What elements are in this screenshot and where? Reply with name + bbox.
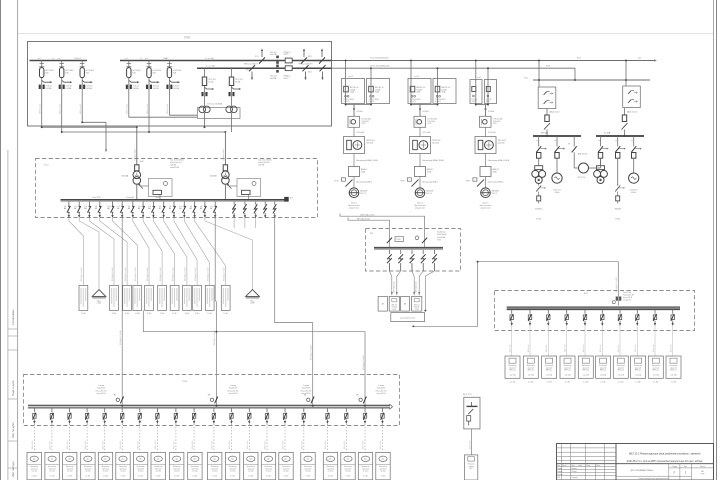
spare feeder stub [233,218,235,228]
load box B3 [542,356,557,384]
svg-text:Uк=6% Дн/Ун-11: Uк=6% Дн/Ун-11 [170,162,182,164]
bottom feeder [302,408,305,452]
TP incomer wire 1 [136,127,138,165]
svg-text:КВВГнг 4х2,5: КВВГнг 4х2,5 [167,104,169,114]
wire through cell L [410,79,412,105]
disconnector bus1 [259,48,265,63]
svg-text:Лист: Лист [684,466,688,468]
node junction [61,131,63,133]
incomer breaker [208,394,218,404]
load box B6 [596,356,611,384]
breaker cell narrow [470,80,482,104]
svg-text:ВВГнг(А)-LS 4х35: ВВГнг(А)-LS 4х35 [80,267,83,281]
load cabinet N15 [279,452,293,479]
wire through cell L [475,79,477,105]
cable to BSK wire B [348,218,389,248]
voltage transformer feeder TV3 [78,58,94,90]
node junction [136,126,138,128]
chain drop [353,105,355,117]
control link wire [414,262,478,327]
motor feeder [631,136,642,158]
svg-text:2 с.ш. 6кВ: 2 с.ш. 6кВ [206,66,215,68]
BSK incomer 2 [422,238,427,244]
svg-text:ЩСУ ТП-3: ЩСУ ТП-3 [463,394,472,396]
node feed B [624,135,626,137]
svg-text:ЛР: ЛР [568,144,570,146]
TP feeder drawout [254,202,257,219]
svg-text:1 с.: 1 с. [52,58,56,60]
svg-text:Н.контр.: Н.контр. [557,474,563,476]
collector to section 4 [143,310,365,405]
disconnector bus1 [319,48,325,63]
svg-text:ВВГнг 4х16: ВВГнг 4х16 [174,441,176,449]
spare feeder stub [244,218,246,228]
TP feeder QF [128,202,135,218]
wire through cell R [370,79,372,105]
wire TSN-1 tail [204,113,206,128]
bus end cap [284,197,289,202]
svg-text:ВВГнг(А)-LS 4х35: ВВГнг(А)-LS 4х35 [223,267,226,281]
svg-text:ВВГнг 4х6: ВВГнг 4х6 [671,345,673,352]
wire drop from KL-1 [475,61,477,79]
svg-text:Листов: Листов [700,466,705,468]
svg-text:яч.8,9: яч.8,9 [414,76,419,78]
svg-text:М2-2: М2-2 [308,72,312,74]
spare feeder stub [255,218,257,228]
TP transformer T2 [222,165,232,200]
svg-text:КВВГнг 4х2,5: КВВГнг 4х2,5 [127,104,129,114]
load cabinet N4 [81,452,95,479]
cable to panel [174,218,197,285]
cable to panel [184,218,209,285]
svg-text:Своб.4ГПП: Своб.4ГПП [92,197,102,199]
section caption [376,385,387,395]
svg-text:ВВГнг 4х16: ВВГнг 4х16 [102,441,104,449]
svg-text:ВВГнг 4х6: ВВГнг 4х6 [510,345,512,352]
load cabinet N3 [62,452,76,479]
svg-text:Ррасч=352 кВт: Ррасч=352 кВт [228,390,239,392]
svg-text:6кВ 80А: 6кВ 80А [270,77,277,80]
svg-text:ВВГнг(А)-LS 4х240: ВВГнг(А)-LS 4х240 [119,330,122,345]
disconnector bus2 [303,65,309,80]
SCHST feeder [528,310,532,356]
svg-text:ВВГнг(А)-LS 4х35: ВВГнг(А)-LS 4х35 [207,267,210,281]
motor captions [553,190,638,194]
bus 1 section I [30,60,88,62]
breaker cell narrow [485,80,497,104]
svg-text:питание: питание [468,466,473,468]
switch box cell A [538,87,556,109]
transformer TSN-1 [199,68,216,113]
svg-text:П: П [673,471,675,474]
svg-text:ЩСТ: ЩСТ [584,293,589,295]
panel cabinet P8 [183,285,192,315]
SCHST feeder [583,310,587,356]
load box B1 [505,356,520,384]
node junction [148,131,150,133]
svg-text:К-250-61-5: К-250-61-5 [630,190,638,192]
SCHST feeder [565,310,569,356]
load cabinet N6 [116,452,130,479]
collector wire y115 [169,114,197,116]
svg-text:КЛ-3: КЛ-3 [546,65,550,67]
svg-text:400УЗ: 400УЗ [284,78,289,80]
cable to panel [89,218,114,285]
TP feeder drawout [243,202,246,219]
svg-text:2с 6кВ: 2с 6кВ [604,133,611,135]
load box B8 [631,356,646,384]
cable to BSK wire A [340,214,425,248]
load box B9 [648,356,663,384]
load box B7 [613,356,628,384]
svg-text:ВВГнг 4х6: ВВГнг 4х6 [583,345,585,352]
pair connector [411,104,438,106]
bus 1 section II [120,60,332,62]
caption SCHU-3 [480,202,492,209]
panel cabinet P1 [79,285,88,315]
svg-text:Петров: Петров [572,471,577,473]
bottom feeder [381,408,384,452]
svg-text:4 секция: 4 секция [378,385,385,387]
svg-text:«УКР»: «УКР» [700,474,705,476]
svg-text:ВВГнг(А) 4х35: ВВГнг(А) 4х35 [415,281,418,292]
bottom feeder [33,408,36,452]
node KL3 [574,79,576,81]
svg-text:ВВГнг 4х16: ВВГнг 4х16 [344,441,346,449]
svg-text:Разраб.: Разраб. [557,468,563,470]
svg-text:1 секция: 1 секция [98,385,105,387]
caption SCHU-2 [414,202,426,209]
chain drop [485,105,487,117]
incomer cable section 2 [215,218,216,405]
load cabinet N16 [301,452,315,479]
svg-text:РВФЗ-2-10/630УЗ: РВФЗ-2-10/630УЗ [299,63,313,66]
capacitor unit FKU2 [412,296,422,311]
svg-text:КВВГнг 4х2,5: КВВГнг 4х2,5 [60,104,62,114]
svg-text:ВВГнг(А)-LS 4х240: ВВГнг(А)-LS 4х240 [213,330,216,345]
distribution line 6kV right [533,79,650,81]
svg-text:ВВГнг 4х16: ВВГнг 4х16 [155,441,157,449]
fuse below box A [546,109,548,116]
svg-text:ВВГнг 4х6: ВВГнг 4х6 [635,345,637,352]
transformer labels [121,161,217,177]
bottom feeder [192,408,195,452]
load cabinet N5 [98,452,112,479]
load box B4 [560,356,575,384]
svg-text:Тр-р ТСЗх-1600/10: Тр-р ТСЗх-1600/10 [258,159,272,161]
svg-text:Дата: Дата [597,465,600,467]
distribution chain SCHU-3 [466,104,510,198]
TP dashed enclosure [36,159,318,218]
motor feeder [554,136,565,158]
lighting board triangle 1 [92,290,106,305]
bottom dashed enclosure TP-3 [24,375,400,426]
svg-text:ВВГнг(А)-LS 4х35: ВВГнг(А)-LS 4х35 [146,267,149,281]
CT stack bus1 [276,56,279,64]
cell group labels [348,76,481,79]
svg-text:Подп. и дата: Подп. и дата [11,380,15,396]
collector wire y132 [62,131,226,133]
breaker cell [408,79,431,104]
SCHU load box [464,455,477,480]
cable to panel [143,218,162,285]
SCHST feeder [510,310,514,356]
wire TV3 tail [81,89,83,122]
wire TV2 tail [61,89,63,132]
svg-text:2хСИП-4: 2хСИП-4 [535,209,542,211]
TP incomer wire 2 [224,132,226,165]
section caption [301,385,312,395]
cable to panel [195,218,226,285]
svg-text:Ру=443 кВт: Ру=443 кВт [229,388,238,390]
svg-text:ТП-3К: ТП-3К [182,381,188,383]
transformer TSN-2 [226,68,243,113]
svg-text:ААШв 3х120: ААШв 3х120 [550,111,560,114]
svg-text:М1-2: М1-2 [308,56,312,58]
svg-text:ВВГнг 4х16: ВВГнг 4х16 [192,441,194,449]
cable to panel [133,218,149,285]
load cabinet N17 [323,452,337,479]
svg-text:ВВГнг 4х6: ВВГнг 4х6 [546,345,548,352]
bottom feeder [68,408,71,452]
cluster labels [244,52,312,80]
motor M4 [629,158,639,183]
bus 2 [197,67,332,69]
svg-text:10/0,4кВ: 10/0,4кВ [170,164,176,166]
svg-text:КВВГнг 4х2,5: КВВГнг 4х2,5 [147,104,149,114]
wire drop from KL-2 [437,68,439,78]
svg-text:630УЗ: 630УЗ [284,54,289,56]
svg-text:Резервное: Резервное [468,464,475,466]
bottom feeder [230,408,233,452]
svg-text:ВВГнг(А)-LS 4х240: ВВГнг(А)-LS 4х240 [310,345,313,360]
auxiliary transformers enclosure [198,108,241,119]
svg-text:Ррасч=152 кВт: Ррасч=152 кВт [623,294,634,296]
svg-text:Ру=443 кВт: Ру=443 кВт [97,388,106,390]
svg-text:КлФ-35-2 ст. №1 на ВРУ произво: КлФ-35-2 ст. №1 на ВРУ производительност… [627,460,704,463]
svg-text:ВВГнг 4х16: ВВГнг 4х16 [50,441,52,449]
chain drop [419,105,421,117]
cable to FKU [389,271,391,292]
svg-text:управления: управления [481,207,491,209]
svg-text:Ру=300квар: Ру=300квар [437,232,446,234]
collector wire y127 [42,126,137,128]
svg-text:ЛР-2: ЛР-2 [246,70,250,72]
svg-text:ЭКГ-8И: ЭКГ-8И [615,209,622,211]
load box B5 [578,356,593,384]
svg-text:яч.4,5: яч.4,5 [348,76,353,78]
load cabinet N14 [261,452,275,479]
svg-text:Подп: Подп [587,465,591,467]
svg-text:Ру=443 кВт: Ру=443 кВт [302,388,311,390]
load cabinet N10 [188,452,202,479]
motor feeder [615,136,626,158]
svg-text:6кВ 50А: 6кВ 50А [270,53,277,56]
svg-text:Ру=443 кВт: Ру=443 кВт [377,388,386,390]
load cabinet N20 [376,452,390,479]
motor feeder reactor [573,136,575,146]
TP main bus 0.4kV [61,199,289,201]
SCHST feeder [547,310,551,356]
cable to panel [153,218,174,285]
svg-text:ТР-10: ТР-10 [615,219,620,221]
bottom feeder [345,408,348,452]
svg-text:ВВГнг(А)-LS 4х35: ВВГнг(А)-LS 4х35 [184,267,187,281]
SCHST feeder [636,310,640,356]
svg-text:ВВГнг 4х16: ВВГнг 4х16 [85,441,87,449]
svg-text:Секция А1: Секция А1 [126,196,134,199]
node junction [224,131,226,133]
svg-text:1 с.ш. 6кВ: 1 с.ш. 6кВ [205,58,214,60]
svg-text:ВВГнг 4х16: ВВГнг 4х16 [212,441,214,449]
title text [627,452,704,462]
svg-text:ААШв 3х120: ААШв 3х120 [627,111,637,114]
svg-text:ВВГнг(А)-LS 4х35: ВВГнг(А)-LS 4х35 [171,267,174,281]
wire TV6 tail [168,89,170,115]
BSK texts [370,232,446,242]
node collector [215,331,217,333]
BSK incomer 1 [387,238,392,244]
cable to panel [113,218,138,285]
svg-text:ТСН-1,2 2х63кВА: ТСН-1,2 2х63кВА [207,103,223,106]
wire TV4 tail [128,89,130,117]
pair connector [346,104,371,106]
TP feeder QF [159,202,166,218]
wire drop from KL-2 [487,68,489,78]
cable to lighting board 2 [205,218,253,290]
svg-text:Uк=6% Дн/Ун-11: Uк=6% Дн/Ун-11 [258,162,270,164]
svg-text:КВВГнг 4х2,5: КВВГнг 4х2,5 [80,104,82,114]
incomer breaker [356,394,366,404]
svg-text:ВВГнг(А)-LS 4х35: ВВГнг(А)-LS 4х35 [111,267,114,281]
BSK feeder [387,250,392,271]
load box B10 [666,356,681,384]
cable to lighting board 1 [79,218,99,290]
SCHST incomer CT [616,297,618,301]
distribution chain SCHU-1 [335,104,379,198]
reactor FROS [573,152,575,168]
svg-text:630кВт: 630кВт [554,192,559,194]
breaker box AV1 [378,296,387,311]
TP feeder QF [190,202,197,218]
svg-text:ТР-10: ТР-10 [536,219,541,221]
svg-text:РЛ-1: РЛ-1 [524,78,528,80]
load cabinet N8 [151,452,165,479]
bottom feeder [212,408,215,452]
wire drop from KL-2 [370,68,372,78]
title block [557,444,714,480]
fuse bus2 [285,66,292,71]
svg-text:Стадия: Стадия [672,466,677,468]
svg-text:БСК: БСК [370,233,373,235]
bottom feeder [265,408,268,452]
TP feeder QF [179,202,186,218]
capacitor unit FKU1 [389,296,399,311]
svg-text:Иванов: Иванов [572,468,577,470]
load cabinet N11 [208,452,222,479]
pair connector [476,104,488,106]
node junction [81,121,83,123]
bottom feeder [121,408,124,452]
svg-text:10/0,4кВ: 10/0,4кВ [258,164,264,166]
svg-text:2хААШв 3х185: 2хААШв 3х185 [133,149,136,161]
panel cabinet P6 [158,285,167,315]
TP feeder QF [108,202,115,218]
bottom feeder [283,408,286,452]
TP feeder QF [138,202,145,218]
svg-text:ВВГнг 4х16: ВВГнг 4х16 [302,441,304,449]
motor bus right [596,135,644,137]
TP transformer T1 [133,165,143,200]
BSK dashed enclosure [366,229,461,272]
BSK feeder [421,250,426,271]
TP feeder QF [169,202,176,218]
disconnector bus1 [301,48,307,63]
load cabinet N9 [170,452,184,479]
breaker box AV2 [401,296,410,311]
svg-text:УХЛ4: УХЛ4 [437,239,441,241]
load cabinet N19 [358,452,372,479]
load cabinet N13 [244,452,258,479]
wire TSN-2 tail [231,113,233,132]
incomer cable section 3 [275,218,313,405]
svg-text:К-250-61-5: К-250-61-5 [553,190,561,192]
motor cluster M1 [532,158,546,183]
disconnector bus2 [320,65,326,80]
TP feeder QF [64,202,71,218]
svg-text:Согласовано: Согласовано [11,309,15,325]
bottom feeder [174,408,177,452]
motor cluster M3 [594,158,608,183]
svg-text:ВВГнг 4х16: ВВГнг 4х16 [283,441,285,449]
svg-text:Ру=167 кВт: Ру=167 кВт [623,292,632,294]
left margin vertical labels [11,309,15,477]
cable KL-2 to right [332,67,575,69]
svg-text:2хААШв 3х185: 2хААШв 3х185 [222,149,225,161]
svg-text:ВКЗ 10.2 Реконструкция цеха ра: ВКЗ 10.2 Реконструкция цеха разделения в… [629,452,701,455]
svg-text:2КЛ-2 2(3х240/35)-6кВ: 2КЛ-2 2(3х240/35)-6кВ [370,65,390,67]
load cabinet N7 [133,452,147,479]
panel cabinet P11 [221,285,230,315]
cable KL-1 to right [332,60,655,62]
svg-text:ВВГнг 4х16: ВВГнг 4х16 [247,441,249,449]
control shield box [391,313,425,322]
svg-text:ВВГнг(А)-LS 4х35: ВВГнг(А)-LS 4х35 [134,267,137,281]
cable to FKU [412,271,414,292]
svg-text:Сидоров: Сидоров [572,477,578,479]
TP feeder QF [95,202,102,218]
section caption [228,385,239,395]
SCHST bus [507,307,680,310]
cable KL-3 drop [574,68,576,80]
svg-text:630кВт: 630кВт [631,192,636,194]
cable to FKU [397,271,401,292]
TP feeder drawout [263,202,266,219]
bottom feeder [50,408,53,452]
svg-text:ЛР-1: ЛР-1 [255,56,259,58]
svg-text:ВВГнг 4х16: ВВГнг 4х16 [32,441,34,449]
svg-text:ВВГнг 4х6: ВВГнг 4х6 [528,345,530,352]
motor feeder [598,136,609,158]
svg-text:ГИП: ГИП [557,477,560,479]
wire drop from KL-1 [410,61,412,79]
bottom feeder [85,408,88,452]
fuse below box B [624,108,626,115]
load box B2 [523,356,538,384]
svg-text:Тр-р ТСЗх-1600/10: Тр-р ТСЗх-1600/10 [170,159,184,161]
svg-text:управления: управления [349,207,359,209]
panel cabinet P3 [123,285,132,315]
